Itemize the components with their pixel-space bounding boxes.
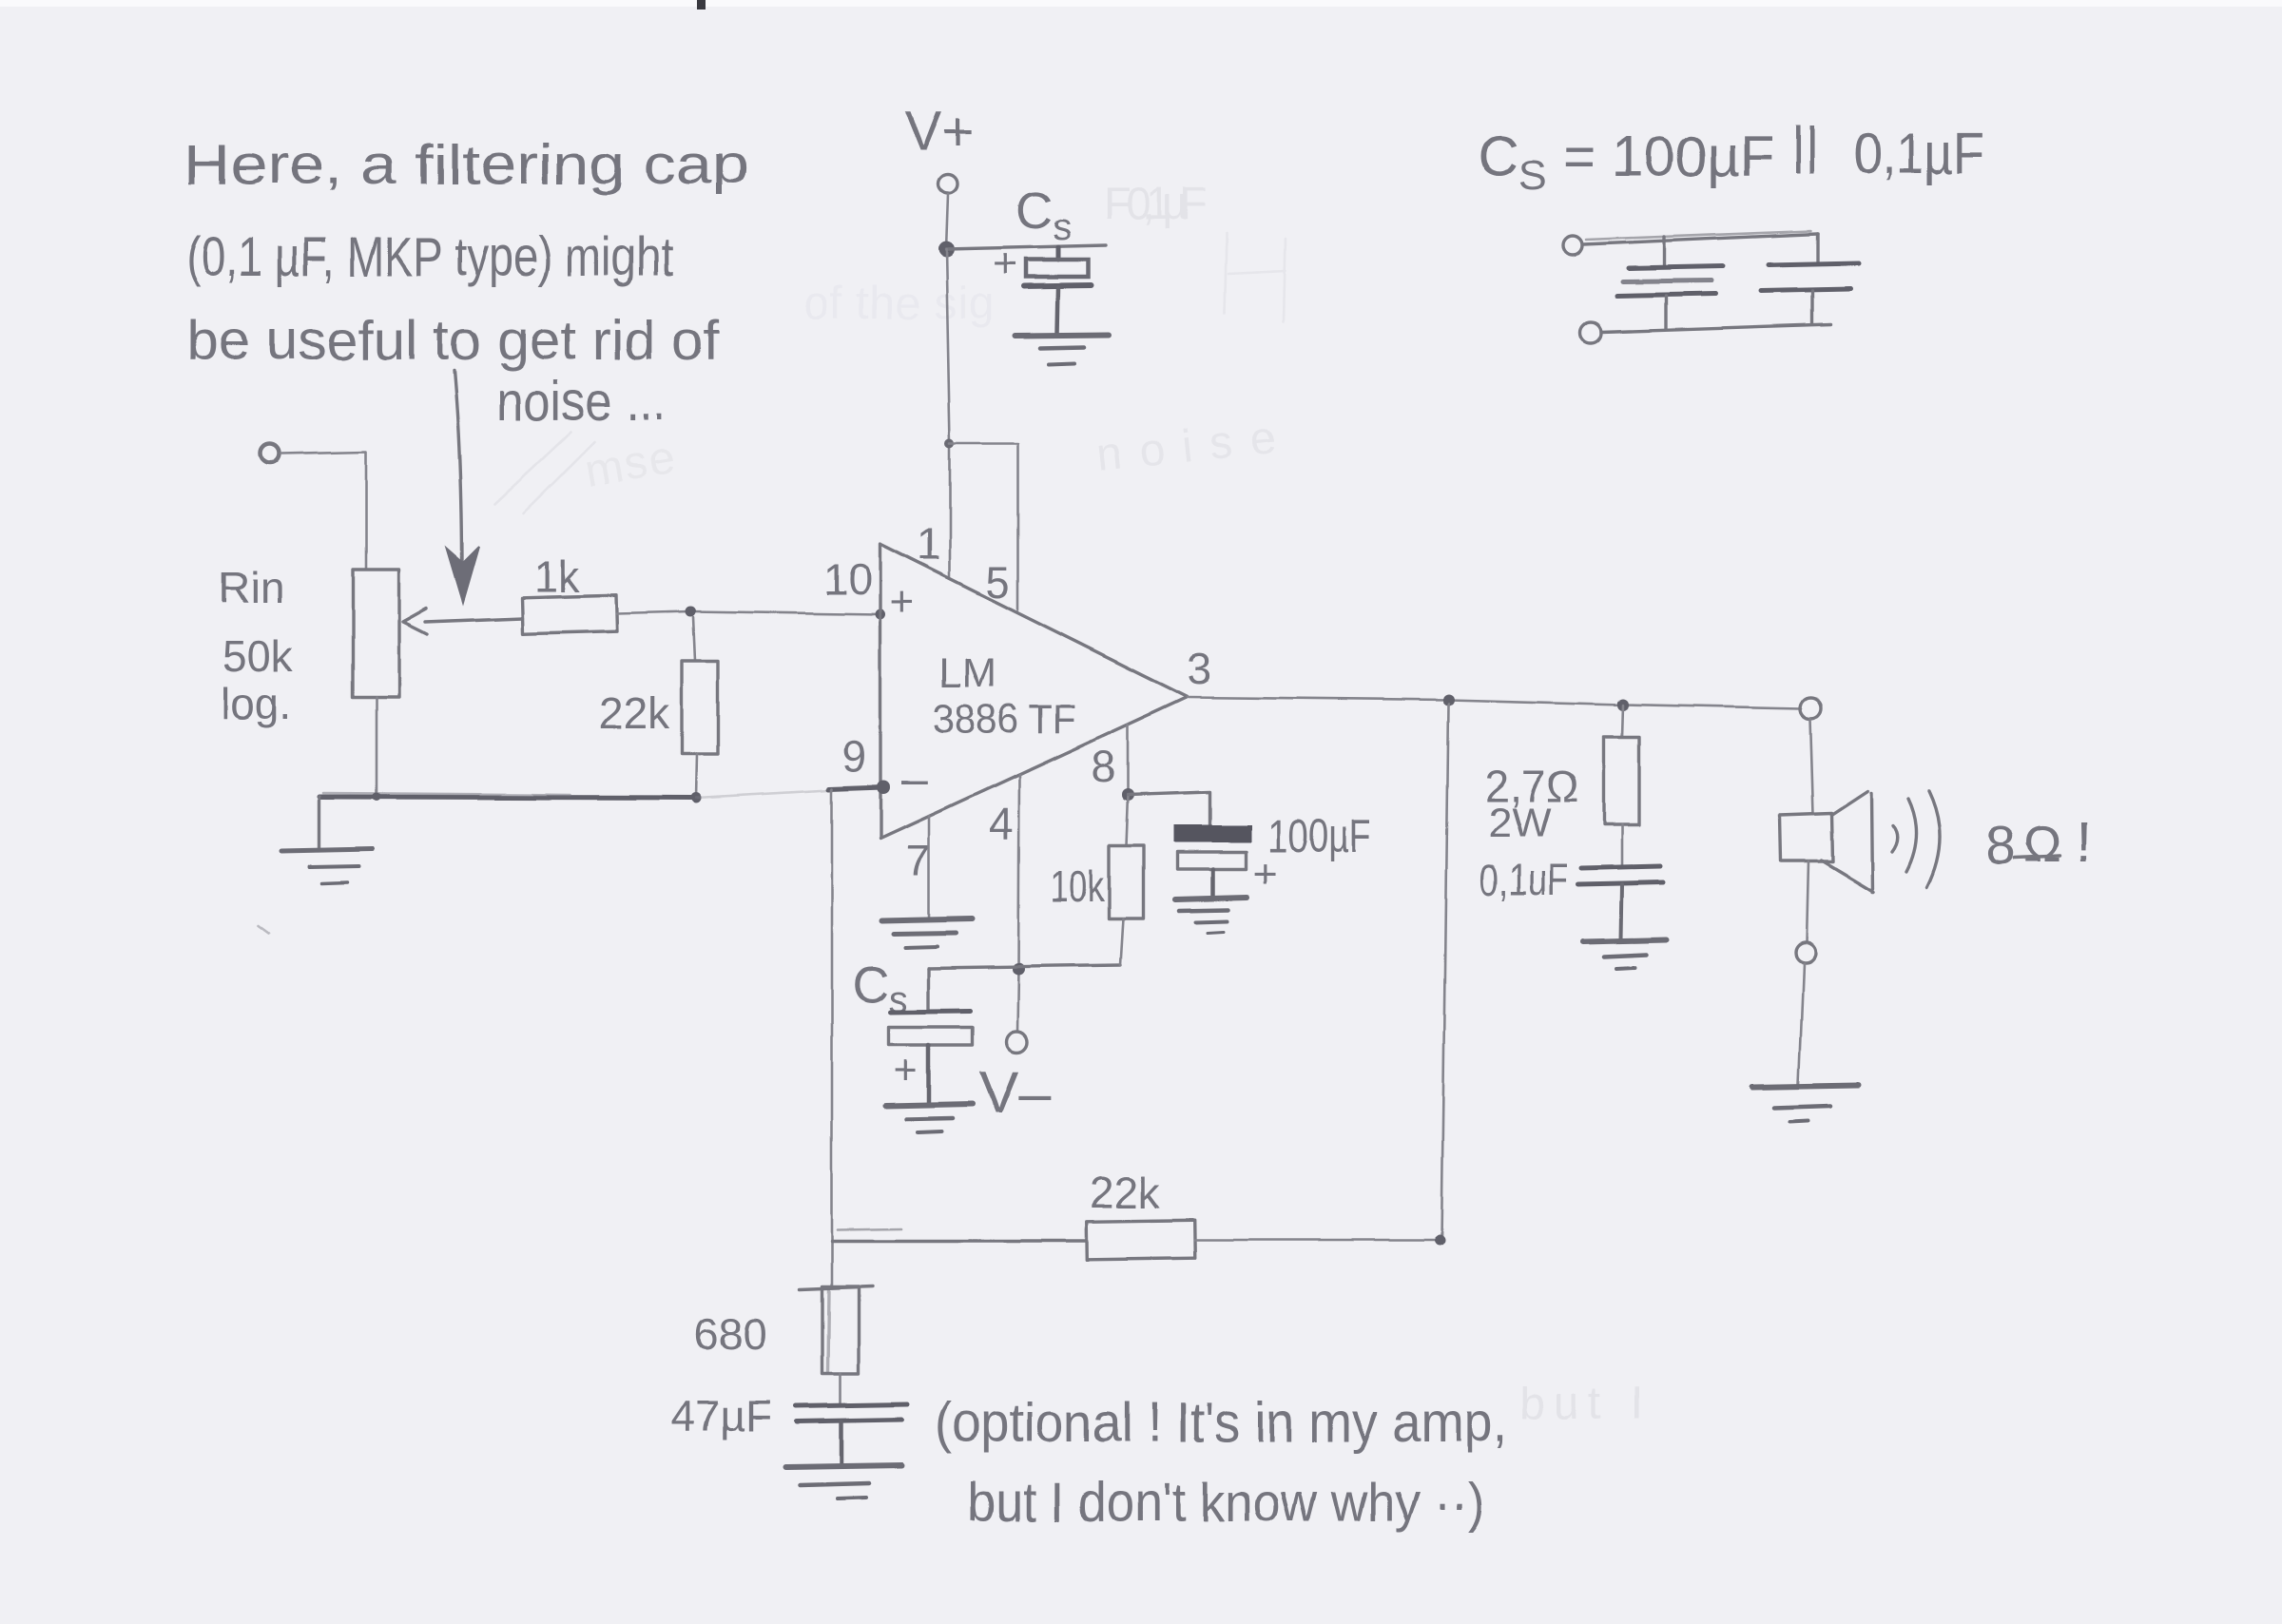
wire input to pot: [281, 452, 366, 570]
svg-text:0,1uF: 0,1uF: [1479, 855, 1569, 904]
wire output to speaker: [1810, 719, 1813, 814]
node zobel: [1617, 699, 1629, 710]
wire to speaker ground: [1799, 963, 1804, 1084]
svg-text:10k: 10k: [1050, 861, 1105, 911]
svg-text:3886 TF: 3886 TF: [933, 696, 1075, 743]
svg-text:0,1µF: 0,1µF: [1854, 122, 1984, 185]
capacitor 0,1uF zobel: [1479, 855, 1663, 939]
resistor 680: [694, 1286, 872, 1404]
wire to Cs cap: [946, 245, 1106, 249]
output terminal: [1800, 698, 1821, 719]
wire pin 5 branch: [950, 444, 1018, 609]
capacitor 100uF (sketch left): [1616, 237, 1723, 329]
svg-text:100µF: 100µF: [1267, 812, 1372, 862]
node pin5 branch: [945, 439, 955, 449]
svg-text:be useful to get rid of: be useful to get rid of: [186, 310, 720, 372]
resistor 1k: [522, 551, 617, 633]
wire minus input down: [829, 787, 883, 1286]
label Rin 50k log: [219, 563, 294, 728]
annotation note: filtering cap: [184, 134, 748, 433]
annotation note: optional: [935, 1392, 1507, 1534]
ground below 100uF: [1175, 898, 1247, 933]
speaker bottom terminal: [1796, 943, 1816, 963]
wire pin 8 down: [1127, 725, 1130, 795]
pin label 1: [917, 519, 941, 569]
V- terminal: [1006, 1032, 1027, 1053]
svg-text:2W: 2W: [1488, 800, 1551, 846]
node pin8: [1122, 789, 1134, 802]
node output/feedback: [1442, 694, 1454, 706]
svg-text:noise ...: noise ...: [496, 371, 666, 433]
pin label 7: [906, 836, 931, 885]
pin label 9: [842, 732, 867, 782]
svg-text:4: 4: [989, 799, 1014, 848]
label 8 ohm: [1985, 810, 2092, 875]
svg-text:22k: 22k: [1090, 1168, 1161, 1217]
pin label 3: [1188, 644, 1212, 693]
speaker waves: [1892, 791, 1941, 888]
Cs parallel caps sketch: top terminal: [1563, 236, 1582, 255]
node pin4 rail junction: [1013, 963, 1025, 976]
capacitor 47uF: [671, 1391, 907, 1465]
svg-text:7: 7: [906, 836, 931, 885]
svg-text:9: 9: [842, 732, 867, 782]
wire speaker bottom: [1807, 861, 1808, 942]
svg-text:LM: LM: [939, 649, 996, 696]
svg-text:F 0,1µF: F 0,1µF: [1103, 179, 1208, 229]
svg-text:V+: V+: [905, 101, 975, 163]
svg-text:+: +: [993, 241, 1017, 287]
wire V- rail: [929, 965, 1120, 968]
node 22k bottom: [691, 793, 702, 803]
ground below 47uF: [785, 1465, 901, 1498]
V+ label: [905, 101, 975, 163]
svg-text:22k: 22k: [599, 688, 670, 738]
svg-text:10: 10: [823, 554, 872, 604]
svg-text:1: 1: [917, 519, 941, 569]
wire top rail: [1583, 231, 1818, 244]
pin label 10: [823, 554, 872, 604]
svg-text:(0,1 µF, MKP type) might: (0,1 µF, MKP type) might: [186, 226, 673, 288]
node pot/rail: [373, 793, 381, 802]
wire pin 7 to ground: [928, 816, 931, 918]
capacitor Cs at V-: [852, 957, 972, 1103]
wire pin 4 down: [1017, 775, 1019, 1032]
note: Cs = 100uF || 0,1uF: [1478, 115, 1984, 199]
svg-text:V–: V–: [979, 1060, 1052, 1126]
wire feedback rail left: [832, 1228, 1087, 1241]
svg-text:8: 8: [1092, 742, 1116, 791]
wire pin8 to 100uF: [1128, 792, 1210, 826]
svg-text:47µF: 47µF: [671, 1391, 772, 1440]
wire V+ down to op-amp pin 1: [946, 249, 950, 578]
ground speaker: [1752, 1085, 1858, 1122]
pin label 8: [1092, 742, 1116, 791]
ground below Cs(V-): [886, 1104, 973, 1132]
pin label 5: [986, 557, 1011, 607]
node V+ junction: [938, 242, 955, 258]
ground below zobel: [1583, 939, 1667, 969]
ghost print artifacts: [494, 179, 1643, 1429]
node +input: [876, 609, 886, 620]
capacitor 100uF: [1174, 812, 1372, 898]
wire output pin 3: [1188, 697, 1801, 708]
input terminal J1: [261, 444, 280, 463]
speaker 8 ohm: [1780, 791, 1874, 892]
svg-text:of the sig: of the sig: [803, 279, 994, 329]
capacitor Cs at V+: [993, 183, 1092, 334]
wire feedback vertical from output: [1441, 704, 1448, 1240]
resistor 10k: [1050, 795, 1143, 965]
wire V+ down: [946, 194, 948, 249]
op-amp U1 LM3886TF: [880, 544, 1188, 839]
svg-text:8: 8: [1985, 815, 2015, 875]
svg-text:–: –: [901, 752, 928, 805]
pin label 4: [989, 799, 1014, 848]
svg-text:680: 680: [694, 1309, 767, 1359]
svg-text:log.: log.: [221, 679, 291, 728]
svg-text:50k: 50k: [222, 631, 294, 681]
svg-text:Ω: Ω: [2022, 816, 2060, 873]
svg-text:but I don't know why ··): but I don't know why ··): [967, 1472, 1484, 1534]
svg-text:||: ||: [1791, 115, 1819, 175]
stray pencil tick: [259, 926, 269, 934]
label V-: [979, 1060, 1052, 1126]
potentiometer Rin 50k log: [353, 570, 522, 797]
annotation arrow: [447, 371, 479, 603]
svg-text:Here, a filtering cap: Here, a filtering cap: [184, 134, 748, 196]
svg-text:5: 5: [986, 557, 1011, 607]
svg-text:!: !: [2076, 810, 2092, 874]
resistor 22k feedback: [1087, 1168, 1195, 1260]
svg-text:+: +: [894, 1047, 919, 1093]
resistor 2,7 ohm 2W: [1485, 705, 1639, 867]
svg-text:(optional ! It's in my amp,: (optional ! It's in my amp,: [935, 1392, 1507, 1454]
svg-text:Rin: Rin: [219, 563, 284, 612]
resistor 22k input: [599, 617, 718, 798]
node minus input: [877, 781, 890, 794]
bottom terminal + wire: [1580, 322, 1830, 343]
wire 1k to +input: [616, 611, 880, 614]
ground below Cs(V+): [1015, 335, 1110, 364]
capacitor 0,1uF (sketch right): [1761, 234, 1858, 324]
ground pin 7: [882, 918, 972, 947]
svg-text:1k: 1k: [533, 551, 581, 601]
V+ terminal: [938, 174, 957, 193]
node A (1k/22k junction): [686, 607, 696, 617]
ground symbol input: [281, 797, 372, 883]
svg-text:+: +: [890, 579, 915, 626]
wire feedback rail right: [1194, 1235, 1445, 1246]
svg-text:3: 3: [1188, 644, 1212, 693]
ground rail: [319, 790, 829, 798]
